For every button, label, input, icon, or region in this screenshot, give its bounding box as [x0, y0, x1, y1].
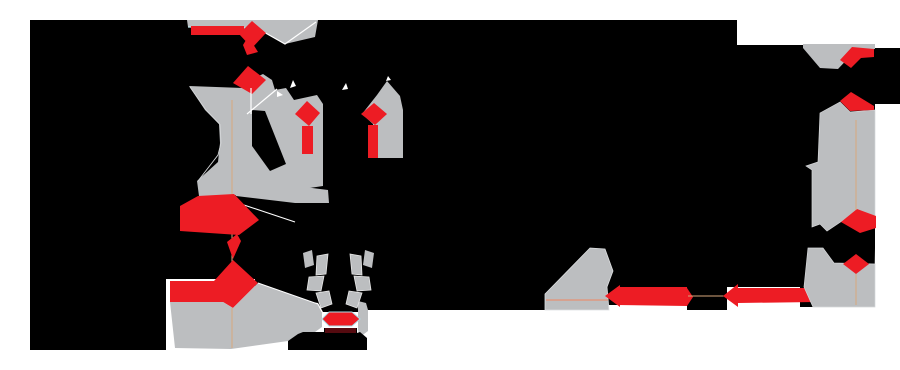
current arrow I4 (south-east) [180, 194, 259, 235]
wire W1 lower segment (tan) [231, 308, 233, 348]
current arrow I6 tip [605, 285, 620, 307]
current arrow I6 tail point [687, 288, 693, 306]
gray right rail column conductor [806, 102, 875, 231]
lamp LP1 left horn segment 2 [307, 276, 324, 291]
current arrow I2 head (left tower) [295, 101, 320, 126]
junction diamond D7 (on mound) [843, 254, 869, 274]
white fold line diagonal [247, 89, 277, 114]
lamp LP1 right horn segment 3 [346, 291, 362, 308]
junction diamond D5 [840, 92, 874, 111]
white arrowhead marker [277, 91, 283, 97]
crossover pinch X1 [227, 234, 241, 259]
gray right tower conductor [362, 81, 403, 158]
current arrow I1 head diamond [239, 21, 266, 48]
wire W3 (tan, junction gap) [688, 295, 724, 297]
current arrow I3 head (right tower) [361, 103, 387, 125]
black notch in funnel [252, 110, 286, 171]
current arrow I3 shaft [368, 125, 378, 158]
lamp LP1 left horn segment 3 [316, 291, 332, 308]
wire W4 lower segment (tan vertical) [855, 274, 857, 305]
white flag on right tower [386, 76, 391, 81]
current arrow I2 shaft [302, 126, 313, 154]
lamp LP1 filament lozenge [322, 312, 360, 326]
white line below band [238, 203, 295, 222]
wire W2 (salmon horizontal) [546, 299, 608, 301]
lamp LP1 left horn segment 1 [316, 254, 328, 275]
lamp label glyphs (dark red) [325, 328, 356, 333]
lamp right lead gray [358, 301, 368, 337]
lamp LP1 right horn segment 2 [354, 276, 371, 291]
junction diamond D6 (mid column) [841, 209, 876, 233]
white tick mark [342, 83, 348, 90]
gray chute conductor (top right) [803, 44, 875, 69]
wire W4 upper segment (tan vertical) [855, 120, 857, 210]
lamp base slab and pedestal [288, 328, 367, 350]
white fold line vertical [250, 88, 252, 114]
cyan edge line on band [188, 26, 252, 28]
gray ramp conductor (bottom middle) [545, 248, 613, 310]
gray conductor mass below I5 [170, 283, 322, 349]
current arrow I5 band with peak [170, 260, 258, 308]
white flag on left tower [290, 80, 296, 88]
white edge on mass top [258, 283, 322, 312]
lamp LP1 left outer wedge [303, 250, 314, 268]
junction diamond D2 [233, 66, 266, 94]
wire highlight band with V notch (top rail) [187, 20, 318, 44]
current arrow I7 (bottom right) [723, 284, 816, 307]
wire W1 (tan vertical) [231, 100, 233, 308]
lamp LP1 right outer wedge [363, 250, 374, 268]
gray mound conductor (bottom right) [804, 248, 875, 307]
current arrow I1 shaft (top) [191, 26, 244, 35]
junction diamond D4 (top right) [840, 47, 874, 68]
lamp LP1 right horn segment 1 [350, 254, 362, 275]
white outline on funnel left edge [190, 87, 221, 181]
current arrow I6 shaft (bottom left) [617, 287, 687, 306]
current arrow I1 tail drip [243, 40, 258, 55]
gray funnel conductor body [189, 74, 323, 196]
gray diagonal band conductor [235, 180, 329, 203]
white edge line on V [262, 22, 316, 44]
